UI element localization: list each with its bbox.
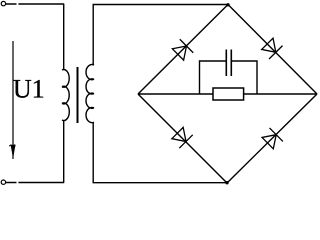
transformer T1 primary winding (62, 70, 69, 121)
diode D3 (171, 126, 193, 148)
wire bridge edge top-right (228, 5, 317, 95)
wire capacitor branch right (231, 61, 257, 94)
wire DC mid line left (138, 93, 213, 95)
wire secondary bottom vertical (92, 122, 94, 182)
source U1 line with arrow (9, 41, 15, 159)
node bottom AC (225, 181, 228, 184)
wire bottom-left horizontal (6, 182, 64, 184)
wire DC mid line right (244, 93, 317, 95)
resistor R1 (213, 88, 244, 100)
svg-text:U1: U1 (13, 75, 45, 104)
diode D4 (261, 128, 283, 150)
capacitor C1 (226, 50, 231, 77)
diode D2 (261, 37, 283, 59)
wire secondary top to bridge (93, 4, 229, 6)
wire primary bottom vertical (63, 120, 65, 183)
wire primary top vertical (63, 4, 65, 70)
wire top-left horizontal (6, 3, 64, 5)
wire bridge edge top-left (138, 5, 228, 95)
terminal circle top-left (1, 1, 5, 5)
wire bridge edge bottom-right (227, 94, 317, 183)
wire capacitor branch left (200, 61, 227, 94)
wire secondary bottom to bridge (93, 182, 228, 184)
wire bridge edge bottom-left (138, 94, 227, 183)
transformer T1 secondary winding (86, 65, 94, 123)
transformer core (77, 67, 79, 123)
diode D1 (171, 39, 193, 61)
wire secondary top vertical (92, 5, 94, 66)
node top AC (226, 3, 229, 6)
terminal circle bottom-left (1, 180, 5, 184)
